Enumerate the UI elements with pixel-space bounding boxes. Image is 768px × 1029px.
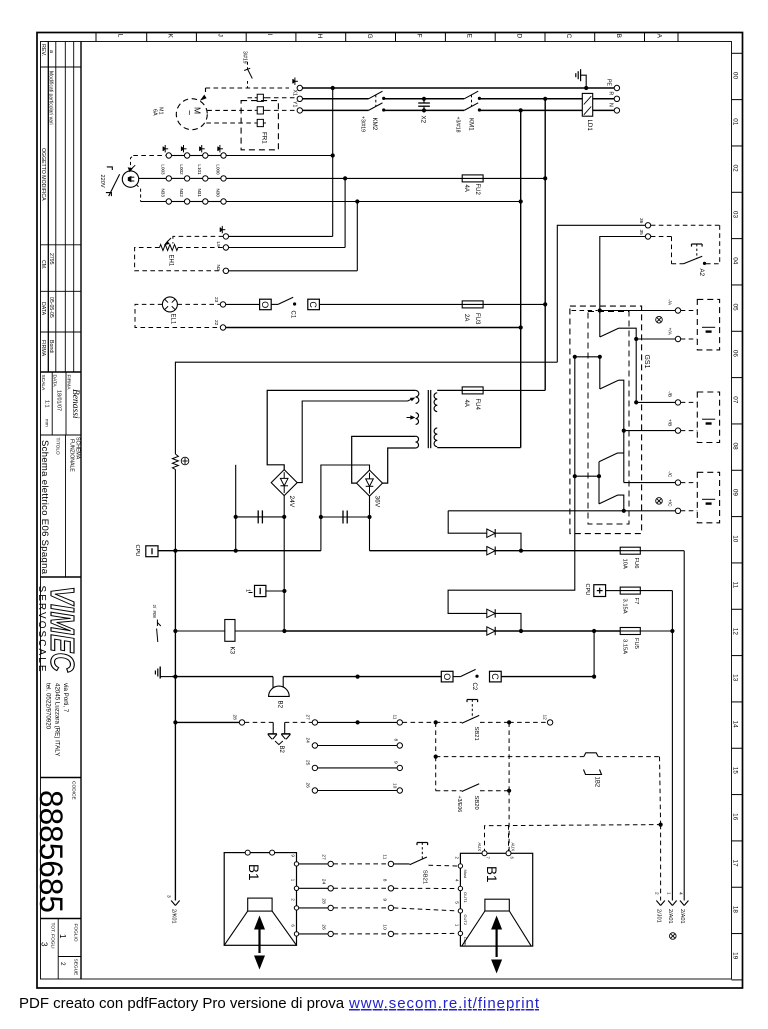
- svg-text:08: 08: [732, 443, 739, 451]
- circled x near arrows: [670, 933, 677, 940]
- svg-text:36: 36: [638, 218, 644, 224]
- wire DC rail right with diode: [370, 550, 487, 552]
- sheet reference arrow 1 2/A01: [668, 901, 672, 906]
- svg-text:B1: B1: [246, 864, 261, 881]
- wire 27 to 11: [318, 721, 397, 723]
- svg-text:22: 22: [213, 320, 219, 326]
- svg-text:12: 12: [732, 628, 739, 636]
- wire 24V cap left riser: [235, 465, 237, 551]
- wire CPU+ to F7: [606, 590, 621, 592]
- dashes -/B to battery: [681, 401, 698, 403]
- GS1 contact 4: [598, 476, 600, 504]
- wire N row: [303, 109, 369, 111]
- svg-text:16: 16: [732, 813, 739, 821]
- terminal 23: [220, 302, 225, 307]
- bottom connector rows: [299, 863, 328, 865]
- wire dashed motor to FR1 mid: [207, 109, 254, 111]
- svg-text:23: 23: [213, 297, 219, 303]
- wire row1: [133, 155, 166, 157]
- terminal +/B: [675, 428, 680, 433]
- svg-text:EH1: EH1: [168, 255, 174, 267]
- svg-text:1:1: 1:1: [44, 400, 50, 408]
- svg-text:11: 11: [382, 854, 388, 859]
- svg-text:3/#19: 3/#19: [242, 51, 248, 64]
- GS1 lower node wire: [575, 475, 599, 477]
- svg-text:I: I: [266, 34, 273, 36]
- dashed row to 1B2: [436, 756, 584, 758]
- svg-text:8: 8: [382, 879, 388, 882]
- capacitor C 24V: [236, 516, 285, 518]
- svg-text:Modificati particolari vari: Modificati particolari vari: [48, 71, 54, 125]
- wire R row: [303, 98, 369, 100]
- svg-text:27: 27: [305, 715, 311, 721]
- wire secondary top lead FU4: [437, 389, 462, 391]
- contact A2: [684, 256, 703, 264]
- wire dashed FR1 e2 to Y1: [266, 109, 297, 111]
- dashed right column: [508, 722, 510, 790]
- svg-text:+/C: +/C: [667, 499, 673, 507]
- wire -/C: [624, 482, 675, 484]
- wire 22 row to N bus: [226, 327, 521, 329]
- svg-text:C1: C1: [290, 311, 296, 319]
- svg-text:35: 35: [638, 230, 644, 236]
- svg-text:J: J: [217, 34, 224, 37]
- GS1 feed wire: [599, 311, 601, 338]
- svg-text:3: 3: [40, 942, 49, 947]
- rows to B1 right terminals: [394, 887, 458, 889]
- svg-text:2: 2: [654, 892, 660, 895]
- wire box1 to bridge bus: [266, 590, 285, 592]
- svg-text:2: 2: [59, 962, 66, 966]
- fuse FU6 10A: [620, 550, 641, 552]
- wire primary g3 lead: [352, 436, 416, 483]
- wire theta bus down: [174, 551, 176, 631]
- wire dashed motor to FR1 bottom: [206, 122, 254, 124]
- terminal 25 row: [312, 765, 317, 770]
- svg-text:4: 4: [678, 892, 684, 895]
- svg-text:C: C: [308, 301, 318, 308]
- plug 220V: [122, 171, 138, 187]
- svg-text:06: 06: [732, 350, 739, 358]
- svg-text:10: 10: [382, 924, 388, 930]
- double arrow left: [254, 916, 265, 930]
- battery pack C dashed box: [697, 472, 719, 523]
- terminal Y1: [297, 108, 302, 113]
- wire FU6 down to sheet arrow: [683, 551, 685, 901]
- sheet reference arrow 2 2/J01: [656, 901, 660, 906]
- svg-text:FU3: FU3: [474, 313, 480, 325]
- terminal N: [614, 108, 619, 113]
- svg-text:mm: mm: [45, 419, 50, 427]
- terminal X1: [297, 96, 302, 101]
- sheet reference arrow 4 2/A01: [680, 901, 684, 906]
- contact KM1 pole 1: [464, 91, 478, 99]
- horn B2: [272, 677, 274, 689]
- svg-text:15: 15: [732, 767, 739, 775]
- diode on K3 rail: [487, 627, 495, 635]
- svg-text:B2: B2: [278, 746, 284, 754]
- terminal -/C: [675, 480, 680, 485]
- switch at 220V plug: [109, 174, 120, 196]
- fuse FU5 3.15A: [620, 630, 641, 632]
- svg-text:12: 12: [542, 715, 548, 721]
- svg-text:2A: 2A: [463, 314, 469, 321]
- svg-text:05-05-05: 05-05-05: [48, 297, 54, 318]
- arrow onto plug: [128, 167, 133, 172]
- dashes -/C to battery: [681, 482, 698, 484]
- lamp EL1: [162, 297, 177, 312]
- terminal -/A: [675, 308, 680, 313]
- svg-text:~: ~: [185, 110, 195, 115]
- svg-text:17: 17: [732, 860, 739, 868]
- svg-text:N30: N30: [215, 189, 220, 198]
- GS1 inner dashed box: [588, 312, 629, 525]
- svg-text:9: 9: [393, 761, 399, 764]
- svg-text:+3/E06: +3/E06: [456, 796, 462, 813]
- svg-text:FOGLIO: FOGLIO: [73, 924, 79, 942]
- wire dashed plug to N row: [136, 185, 140, 202]
- battery switch GS1 outer dashed box: [570, 306, 642, 533]
- svg-text:24: 24: [305, 738, 311, 744]
- svg-text:OGGETTO MODIFICA: OGGETTO MODIFICA: [40, 148, 46, 201]
- svg-text:2/K01: 2/K01: [170, 909, 176, 924]
- thermistor: [172, 454, 178, 470]
- contact SB21 bottom: [410, 857, 427, 865]
- battery B cell: [702, 418, 715, 420]
- svg-text:04: 04: [732, 257, 739, 265]
- svg-text:11: 11: [732, 582, 739, 589]
- svg-text:F7: F7: [633, 598, 639, 605]
- wire -/B: [636, 401, 675, 403]
- sheet reference arrow 3 2/K01: [171, 901, 175, 906]
- wire dashed earth drop to EH1: [173, 236, 223, 243]
- svg-text:14: 14: [732, 721, 739, 729]
- bus2 vertical L000: [344, 178, 346, 247]
- svg-text:9: 9: [382, 898, 388, 901]
- svg-text:+/A: +/A: [667, 328, 673, 336]
- wire dashed EH1 left to N2: [135, 248, 224, 271]
- svg-text:1B2: 1B2: [594, 777, 600, 788]
- svg-text:N: N: [608, 103, 614, 107]
- actuator symbol SB21 bottom: [417, 842, 428, 844]
- inline connector 1B2: [584, 753, 598, 757]
- svg-text:18/01/07: 18/01/07: [56, 390, 62, 411]
- terminal 24 row: [312, 743, 317, 748]
- chevron under fork: [275, 741, 283, 745]
- svg-text:07: 07: [732, 396, 739, 404]
- GS1 dashed rung at -/A: [572, 310, 598, 312]
- wire +/B: [624, 430, 675, 432]
- svg-text:Must: Must: [463, 870, 468, 880]
- svg-text:-/C: -/C: [667, 471, 673, 478]
- scale row separator: [41, 371, 82, 373]
- svg-text:CPU: CPU: [134, 545, 140, 557]
- bus3 vertical N30: [356, 202, 358, 271]
- terminal +/C: [675, 508, 680, 513]
- wire DC rail left: [158, 550, 321, 552]
- circled x C: [656, 498, 663, 505]
- terminal 36: [645, 223, 650, 228]
- svg-text:SB21: SB21: [473, 727, 479, 741]
- switch C1 with O and C boxes: [226, 303, 260, 305]
- speaker symbol left: [248, 898, 272, 911]
- svg-text:B: B: [615, 34, 622, 38]
- svg-text:4A: 4A: [463, 185, 469, 192]
- rectifier bridge 36V: [357, 470, 383, 496]
- svg-text:LD1: LD1: [586, 120, 593, 132]
- svg-text:H: H: [316, 34, 323, 39]
- diode on DC rail: [487, 547, 495, 555]
- GS1 node: [598, 355, 602, 359]
- svg-text:CPU: CPU: [584, 584, 590, 596]
- title row separator: [41, 434, 82, 436]
- svg-text:X2: X2: [419, 116, 426, 124]
- terminal -/B: [675, 400, 680, 405]
- wire primary top lead: [267, 390, 415, 469]
- svg-text:K3: K3: [229, 647, 236, 655]
- wire B2 rail right: [283, 676, 441, 678]
- junction LD1 PE: [584, 86, 588, 90]
- svg-text:3: 3: [166, 895, 172, 898]
- svg-text:10: 10: [732, 535, 739, 543]
- actuator symbol A2: [692, 243, 703, 245]
- wire N row to bus: [357, 201, 520, 203]
- svg-text:VIMEC: VIMEC: [44, 586, 81, 673]
- svg-text:8: 8: [393, 739, 399, 742]
- svg-text:FU2: FU2: [474, 184, 480, 196]
- svg-text:R: R: [608, 92, 614, 96]
- dashed 1B2 to right column: [598, 756, 659, 758]
- svg-text:03: 03: [732, 211, 739, 219]
- EMI filter LD1: [582, 93, 592, 116]
- svg-text:B1: B1: [484, 866, 499, 883]
- wire B2 rail: [172, 676, 273, 678]
- svg-text:E: E: [466, 34, 473, 38]
- svg-text:+3/#18: +3/#18: [455, 117, 461, 133]
- svg-text:FU5: FU5: [633, 638, 639, 649]
- wire 36V plus riser: [321, 465, 370, 517]
- bus R vertical: [544, 99, 546, 391]
- svg-text:DATA: DATA: [40, 302, 46, 316]
- motor M1: [176, 99, 207, 130]
- svg-text:PE: PE: [606, 79, 612, 86]
- wire dashed motor feed with arrow: [206, 87, 290, 89]
- box CPU plus: [594, 585, 606, 597]
- svg-text:1: 1: [58, 934, 67, 939]
- diode on charge branch: [487, 609, 495, 617]
- codice section separator: [41, 777, 82, 779]
- svg-text:02: 02: [732, 165, 739, 173]
- dashed SB21 column down: [435, 722, 437, 756]
- terminal 27: [312, 720, 317, 725]
- battery A cell: [702, 326, 715, 328]
- svg-text:O: O: [442, 673, 452, 680]
- svg-text:REV.: REV.: [40, 44, 46, 56]
- svg-text:SCALA: SCALA: [40, 375, 46, 392]
- arrow at EH1: [164, 241, 170, 246]
- svg-text:G: G: [366, 34, 373, 39]
- transformer secondary winding: [434, 393, 437, 399]
- svg-text:N32: N32: [179, 189, 184, 198]
- svg-text:05: 05: [732, 304, 739, 312]
- svg-text:www.secom.re.it/fineprint: www.secom.re.it/fineprint: [348, 995, 540, 1012]
- svg-text:AUX: AUX: [477, 843, 482, 852]
- svg-text:DATA: DATA: [52, 375, 58, 388]
- svg-text:via Porti, 7: via Porti, 7: [62, 683, 69, 713]
- wire 35 feed: [600, 237, 645, 311]
- junction bus1 row1: [331, 153, 335, 157]
- dashed link KM1: [471, 95, 473, 107]
- svg-text:FU4: FU4: [474, 399, 480, 411]
- svg-text:2/A01: 2/A01: [667, 909, 673, 924]
- terminal with earth mark top row: [297, 85, 302, 90]
- svg-text:24: 24: [321, 879, 327, 885]
- svg-text:SEGUE: SEGUE: [73, 959, 79, 976]
- wire dashed EH1 right to L9: [178, 247, 223, 249]
- svg-text:FIRMA: FIRMA: [40, 340, 46, 357]
- svg-text:CM.: CM.: [40, 260, 46, 270]
- speaker box B1 left: [224, 853, 296, 946]
- svg-text:L9: L9: [215, 242, 221, 248]
- wire -/A: [600, 310, 675, 312]
- wire primary bottom lead: [383, 448, 416, 483]
- box 1 aux: [255, 585, 266, 596]
- terminal +/A: [675, 336, 680, 341]
- svg-text:A: A: [656, 34, 663, 39]
- svg-text:1: 1: [666, 892, 672, 895]
- svg-text:EL1: EL1: [170, 314, 176, 325]
- svg-text:36V: 36V: [374, 496, 381, 508]
- fuse FU4 4A: [462, 389, 484, 391]
- dashed SB21 to 12: [480, 721, 509, 723]
- B1 right edge terminals: [458, 864, 462, 868]
- svg-text:4A: 4A: [463, 400, 469, 407]
- speaker box B1 right: [460, 853, 532, 946]
- terminal N2: [223, 268, 228, 273]
- svg-text:25: 25: [305, 760, 311, 766]
- svg-text:Schema elettrico E06 Spagna: Schema elettrico E06 Spagna: [39, 440, 50, 575]
- svg-text:FR1: FR1: [261, 132, 268, 144]
- double arrow right: [491, 916, 502, 930]
- svg-text:Y1: Y1: [292, 101, 298, 107]
- svg-text:A2: A2: [698, 269, 705, 277]
- svg-text:a: a: [48, 50, 54, 53]
- svg-text:FU6: FU6: [633, 558, 639, 569]
- wire EH1 terminals to buses: [229, 235, 333, 237]
- dashed aux6 column: [508, 825, 510, 851]
- svg-text:L003: L003: [161, 164, 166, 175]
- svg-text:Bondi: Bondi: [48, 340, 54, 353]
- contact SB20: [462, 784, 479, 792]
- svg-text:18: 18: [732, 906, 739, 914]
- svg-text:00: 00: [732, 72, 739, 80]
- terminal row L003 L002 L101 L000: [166, 176, 171, 181]
- GS1 contact 3: [598, 462, 600, 476]
- junction N bus: [519, 108, 523, 112]
- top ruler ticks: [95, 33, 97, 42]
- terminal R: [614, 96, 619, 101]
- capacitor X2: [423, 99, 425, 103]
- svg-text:L101: L101: [197, 164, 202, 175]
- svg-text:10: 10: [392, 783, 398, 789]
- dashed 11 to SB21: [403, 721, 436, 723]
- wire 24V minus vertical: [283, 496, 285, 631]
- wire +/C long: [448, 510, 675, 512]
- svg-text:F: F: [416, 34, 423, 38]
- logo section separator: [41, 576, 82, 578]
- svg-text:2/J01: 2/J01: [655, 909, 661, 923]
- transformer primary winding: [416, 390, 419, 397]
- wire +C diode branch: [448, 511, 487, 533]
- dashed wiring thermostat A2: [651, 224, 720, 226]
- ground at B2 rail: [159, 667, 161, 679]
- heater EH1: [160, 245, 179, 251]
- svg-text:6A: 6A: [152, 109, 158, 116]
- wire F7 down to sheet arrow: [671, 591, 673, 901]
- svg-text:3.15A: 3.15A: [622, 639, 628, 654]
- svg-text:SB21: SB21: [422, 870, 428, 884]
- terminal PE: [614, 85, 619, 90]
- svg-text:KM1: KM1: [468, 118, 475, 131]
- svg-text:8885685: 8885685: [33, 790, 69, 913]
- svg-text:CODICE: CODICE: [71, 781, 77, 800]
- GS1 left drop: [574, 357, 576, 476]
- svg-text:C: C: [490, 673, 500, 680]
- battery pack B dashed box: [697, 392, 719, 443]
- diode on +C branch: [487, 529, 495, 537]
- svg-text:2795: 2795: [48, 253, 54, 265]
- transformer tap arrows: [408, 399, 413, 401]
- wire 36V minus vertical: [369, 496, 371, 551]
- wire K3 rail to FU5: [284, 630, 486, 632]
- svg-text:+/B: +/B: [667, 419, 673, 426]
- svg-text:220V: 220V: [99, 175, 105, 188]
- svg-text:B2: B2: [277, 701, 284, 709]
- wire dashed EL1 to 22: [135, 304, 220, 327]
- terminal 26 row: [312, 788, 317, 793]
- dashes -/A to battery: [681, 310, 698, 312]
- plug fork B2: [268, 733, 277, 735]
- battery C cell: [702, 498, 715, 500]
- svg-text:28: 28: [321, 898, 327, 904]
- bus N vertical: [520, 110, 522, 447]
- wire secondary bottom lead to N bus: [437, 447, 521, 449]
- svg-text:KM2: KM2: [371, 118, 378, 131]
- wire row N3x: [141, 201, 167, 203]
- thermal overload FR1 dashed box: [241, 101, 278, 150]
- svg-text:N2: N2: [215, 265, 221, 271]
- dashed 27 to plug: [285, 721, 312, 723]
- svg-text:27: 27: [321, 854, 327, 860]
- wire 24V right vertex riser: [297, 401, 407, 483]
- rectifier bridge 24V: [271, 470, 297, 496]
- wire 36 feed: [557, 225, 645, 362]
- wire GS1 charge branch: [448, 476, 575, 613]
- svg-text:PDF creato con pdfFactory Pro: PDF creato con pdfFactory Pro versione d…: [19, 995, 345, 1012]
- wire dashed plug to row1: [131, 156, 134, 171]
- svg-text:L000: L000: [215, 164, 220, 175]
- svg-text:42045 Luzzara (RE) ITALY: 42045 Luzzara (RE) ITALY: [54, 683, 61, 756]
- terminal 12: [547, 720, 552, 725]
- fuse FU2 4A: [345, 177, 462, 179]
- svg-text:L: L: [117, 34, 124, 38]
- circled x A: [656, 316, 663, 323]
- GS1 contact 1: [600, 328, 619, 337]
- svg-text:24V: 24V: [288, 496, 295, 508]
- svg-text:+3/#19: +3/#19: [360, 116, 366, 132]
- terminal row1 with earth marks: [166, 153, 171, 158]
- battery pack A dashed box: [697, 299, 719, 350]
